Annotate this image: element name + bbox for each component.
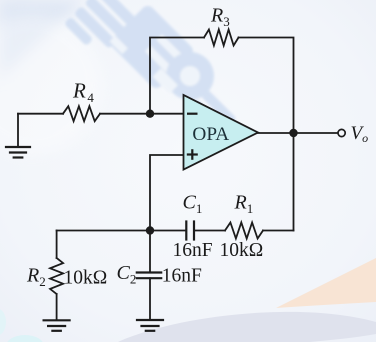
node: bottom junction (146, 226, 154, 234)
resistor R1 (225, 223, 263, 239)
wire: bottom node horizontal left (57, 230, 186, 232)
capacitor C2 (137, 273, 161, 279)
wire: R4 to op-amp inverting input (100, 113, 184, 115)
wire: R1 to right rail (263, 230, 294, 232)
ground (left) stem (17, 114, 19, 147)
wire: R2 to ground (56, 294, 58, 320)
wire: C2 to ground (149, 278, 151, 320)
ground (below C2) (137, 320, 163, 331)
svg-text:16nF: 16nF (173, 240, 213, 261)
node: output junction (289, 129, 297, 137)
resistor R2 (50, 258, 63, 294)
svg-text:10kΩ: 10kΩ (220, 240, 264, 261)
watermark logo shapes (64, 0, 237, 145)
capacitor C1 (186, 222, 194, 240)
bottom-right orange triangle (276, 258, 376, 308)
ground (left) (6, 147, 30, 158)
resistor R4 (63, 106, 100, 121)
ground (below R2) (44, 320, 70, 331)
svg-text:OPA: OPA (192, 124, 229, 145)
wire: op-amp noninverting input (150, 155, 184, 231)
bottom-left cyan blob (6, 335, 44, 342)
op-amp minus sign (187, 113, 198, 115)
watermark backdrop circle (0, 15, 102, 155)
svg-text:16nF: 16nF (162, 266, 202, 287)
wire: left input from ground (18, 113, 63, 115)
wire: op-amp output (258, 132, 338, 134)
top-left corner blue wash (0, 0, 85, 78)
bottom gray swoosh (118, 312, 376, 342)
wire: top feedback left segment (150, 38, 204, 114)
node: inverting input junction (146, 110, 154, 118)
wire: R2 branch top (56, 231, 58, 259)
op-amp plus sign (187, 149, 198, 160)
op-amp U1 (184, 95, 259, 170)
resistor R3 (204, 30, 239, 46)
terminal Vo circle (338, 129, 345, 136)
svg-text:10kΩ: 10kΩ (64, 268, 108, 289)
wire: C2 branch top (149, 231, 151, 273)
wire: C1 to R1 (194, 230, 225, 232)
wire: top feedback right segment (239, 38, 294, 231)
